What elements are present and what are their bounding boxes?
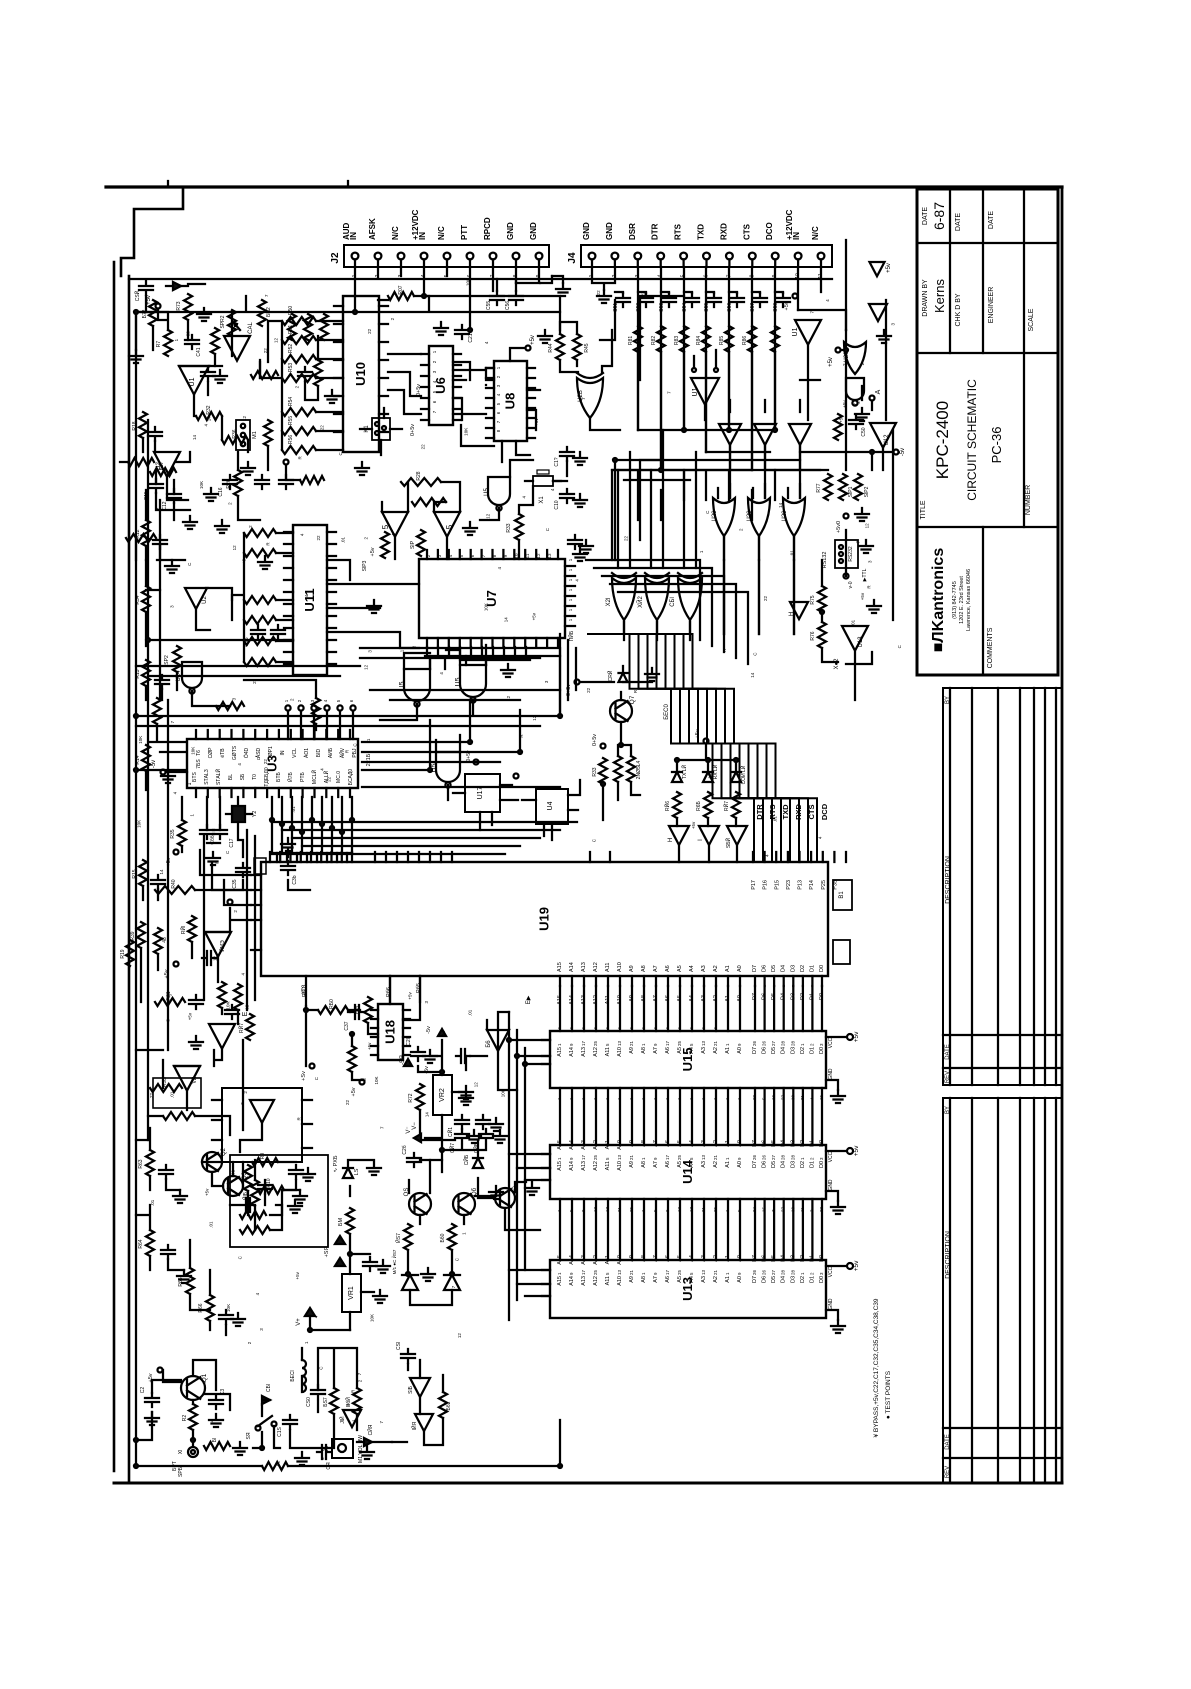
svg-text:C2l: C2l <box>406 1038 412 1046</box>
resistor R57d <box>323 1388 338 1414</box>
svg-text:A7: A7 <box>653 965 659 972</box>
svg-text:+5v: +5v <box>534 418 539 426</box>
svg-text:7БЅ: 7БЅ <box>196 759 202 769</box>
resistor R30 <box>318 999 348 1014</box>
svg-text:R66: R66 <box>198 1303 204 1312</box>
capacitor C16 <box>218 475 237 497</box>
memory chip select stubs <box>542 1040 550 1296</box>
revision table upper REV <box>945 1071 951 1083</box>
IC U8 <box>494 361 527 441</box>
svg-text:БTБ: БTБ <box>276 771 282 781</box>
svg-text:D0: D0 <box>819 1140 825 1147</box>
pullup resistors R81-R86 <box>628 326 779 352</box>
flip-flop U17 <box>465 774 500 812</box>
+5v Q7 <box>566 666 652 696</box>
svg-text:ЙМЭ: ЙМЭ <box>218 940 226 952</box>
relay M1 <box>236 420 258 450</box>
resistor R33c <box>506 514 523 540</box>
svg-text:C16: C16 <box>218 487 224 496</box>
memory power pins 2 <box>826 1260 860 1333</box>
long horizontals gate region <box>612 460 820 560</box>
ground C47 <box>467 1130 507 1143</box>
+5v circle mid strip <box>836 514 849 534</box>
svg-text:R82: R82 <box>651 336 657 345</box>
svg-text:LЅ: LЅ <box>354 1168 360 1175</box>
svg-text:D4: D4 <box>781 1047 787 1054</box>
svg-text:PБJ: PБJ <box>352 748 358 758</box>
connector J2 pin 8 GND <box>506 222 519 277</box>
svg-text:A12: A12 <box>593 1255 599 1265</box>
svg-text:МС.0: МС.0 <box>336 771 342 783</box>
wire -5v label <box>400 1055 412 1066</box>
wire xtal mesh <box>480 460 567 559</box>
svg-text:BY: BY <box>945 1106 951 1114</box>
svg-text:A13: A13 <box>581 1140 587 1150</box>
svg-text:C1Ѕ: C1Ѕ <box>277 1426 283 1436</box>
svg-text:DRAWN BY: DRAWN BY <box>922 279 929 317</box>
resistor R12 <box>135 520 150 546</box>
svg-text:R2: R2 <box>182 1415 188 1422</box>
IC U8 pins <box>486 368 535 438</box>
+5v circle top-left <box>146 295 161 308</box>
label V+ arrow <box>296 1308 350 1330</box>
U7 right pin labels <box>568 558 573 621</box>
svg-text:A15: A15 <box>557 1140 563 1150</box>
svg-text:A3: A3 <box>701 1161 707 1168</box>
wire Q1 mesh <box>136 1360 230 1446</box>
svg-text:14: 14 <box>210 1419 215 1425</box>
svg-text:22: 22 <box>752 1094 757 1100</box>
op-amp U1B cal <box>224 322 254 361</box>
J2 pin drops <box>355 267 552 330</box>
svg-text:U20: U20 <box>782 510 788 522</box>
svg-text:+5v: +5v <box>886 263 892 273</box>
svg-text:28: 28 <box>790 1040 795 1046</box>
connector J4 label <box>567 252 578 264</box>
svg-text:GND: GND <box>529 222 538 240</box>
svg-text:Q1: Q1 <box>201 1373 208 1382</box>
svg-text:R64: R64 <box>138 1239 144 1248</box>
flip-flop U4 <box>536 789 568 824</box>
svg-text:17: 17 <box>581 1040 586 1046</box>
svg-text:0+5v: 0+5v <box>416 384 422 396</box>
op-amp U1K <box>250 1100 274 1123</box>
svg-text:A6: A6 <box>665 965 671 972</box>
svg-text:12: 12 <box>536 553 541 559</box>
svg-text:R75: R75 <box>810 595 816 604</box>
tick marks top border <box>168 181 348 187</box>
svg-text:.01: .01 <box>851 619 856 626</box>
op-amp U2A <box>154 452 180 477</box>
resistor R21 <box>155 991 185 1006</box>
svg-text:R28: R28 <box>416 471 422 480</box>
svg-text:17: 17 <box>581 1154 586 1160</box>
svg-text:A0: A0 <box>737 965 743 972</box>
svg-text:A5: A5 <box>677 1047 683 1054</box>
svg-text:10K: 10K <box>199 481 204 489</box>
svg-text:A3: A3 <box>701 1140 707 1147</box>
svg-text:VCC: VCC <box>828 1266 834 1277</box>
svg-text:C3b: C3b <box>292 875 298 884</box>
svg-text:13: 13 <box>617 1269 622 1275</box>
inductor RFC1 <box>290 1360 306 1392</box>
svg-text:14: 14 <box>159 869 164 875</box>
svg-text:N/C: N/C <box>811 226 820 240</box>
transistor Q6 <box>453 1187 478 1215</box>
resistor R13 <box>135 660 150 686</box>
title block SCALE <box>1028 308 1035 331</box>
svg-text:22: 22 <box>263 348 268 354</box>
+5v Q1 <box>148 1368 163 1383</box>
svg-text:ЅlБ: ЅlБ <box>408 1385 414 1393</box>
svg-text:.01: .01 <box>291 806 296 813</box>
capacitor C26 <box>402 1145 421 1167</box>
op-amp U2C <box>185 588 208 609</box>
svg-text:U12: U12 <box>884 434 890 446</box>
IC U11 <box>293 525 327 675</box>
svg-text:A6: A6 <box>665 1047 671 1054</box>
svg-text:A4: A4 <box>689 1047 695 1054</box>
svg-text:RБ0: RБ0 <box>329 999 335 1009</box>
wire V- arrow <box>406 1110 455 1140</box>
svg-text:+5v: +5v <box>838 415 843 423</box>
title block DATE (eng) <box>988 211 995 229</box>
svg-text:10K: 10K <box>465 278 470 286</box>
ground U1E <box>877 330 891 343</box>
svg-text:21: 21 <box>617 1206 622 1212</box>
svg-text:10: 10 <box>790 1094 795 1100</box>
svg-text:D2: D2 <box>800 1276 806 1283</box>
svg-text:+5v: +5v <box>204 1188 209 1196</box>
U7 right pins <box>565 566 575 626</box>
wire left fill3 <box>190 1240 226 1335</box>
svg-text:KPC-2400: KPC-2400 <box>933 401 952 479</box>
svg-text:27: 27 <box>781 1206 786 1212</box>
svg-text:CБl: CБl <box>266 1384 272 1392</box>
diode D5 <box>402 1275 418 1290</box>
ground U5A <box>463 522 477 535</box>
resistor R46 <box>663 792 681 818</box>
IC U19 bottom pins <box>306 976 822 1006</box>
ground U2E <box>189 1036 203 1049</box>
svg-text:D3: D3 <box>790 1276 796 1283</box>
wire left verticals mid2 <box>243 830 255 1130</box>
svg-text:DATE: DATE <box>922 207 929 225</box>
svg-text:14: 14 <box>750 672 755 678</box>
svg-text:VR1: VR1 <box>348 1286 355 1300</box>
svg-text:SЯ: SЯ <box>246 1432 252 1439</box>
svg-text:A6: A6 <box>665 1276 671 1283</box>
svg-text:R14: R14 <box>135 755 141 764</box>
svg-text:A14: A14 <box>569 1047 575 1057</box>
resistor R53 <box>150 1076 182 1092</box>
+5v U18 area <box>301 1064 365 1097</box>
svg-text:SCALE: SCALE <box>1028 308 1035 331</box>
resistor R26 <box>226 470 242 496</box>
svg-text:v-0: v-0 <box>848 581 854 588</box>
svg-text:D1: D1 <box>809 1140 815 1147</box>
crystal B1 box <box>833 880 852 910</box>
IC U18 <box>378 1004 403 1060</box>
svg-text:C15: C15 <box>244 637 250 646</box>
transistor Q4 <box>495 1186 520 1208</box>
svg-text:D0: D0 <box>819 965 825 972</box>
resistor R73 <box>176 294 192 320</box>
svg-text:A2: A2 <box>713 965 719 972</box>
svg-text:21: 21 <box>629 1040 634 1046</box>
IC U7 <box>419 559 565 638</box>
ground U7 right <box>573 548 587 561</box>
svg-text:X1: X1 <box>539 496 545 504</box>
resistor R15 <box>132 860 147 886</box>
svg-text:éTB: éTB <box>220 748 226 758</box>
resistors R49 R45b <box>614 756 642 782</box>
svg-text:12: 12 <box>274 338 279 344</box>
svg-text:REV: REV <box>945 1466 951 1478</box>
capacitor C11 <box>144 479 163 500</box>
svg-text:R83: R83 <box>674 336 680 345</box>
svg-text:DATE: DATE <box>988 211 995 229</box>
op-amp U5B <box>381 512 408 537</box>
inverter J <box>724 826 747 848</box>
svg-text:COMMENTS: COMMENTS <box>987 627 994 668</box>
wire U8 top +5 <box>510 335 536 361</box>
svg-text:D6: D6 <box>762 1047 768 1054</box>
svg-text:22: 22 <box>149 1092 154 1098</box>
svg-text:JlЙ: JlЙ <box>338 1416 346 1424</box>
IC U6 <box>429 346 453 425</box>
svg-text:R56: R56 <box>288 435 294 444</box>
border frame left outer <box>113 262 116 1471</box>
svg-text:A10: A10 <box>617 1276 623 1286</box>
svg-text:GND: GND <box>605 222 614 240</box>
svg-text:ENGINEER: ENGINEER <box>988 287 995 324</box>
svg-text:U5: U5 <box>455 677 462 686</box>
capacitor C9 <box>289 1165 315 1181</box>
svg-text:R9: R9 <box>260 1153 266 1160</box>
connector J4 pin 6 TXD <box>697 224 710 278</box>
svg-text:27: 27 <box>771 1269 776 1275</box>
svg-text:10: 10 <box>514 553 519 559</box>
svg-text:R84: R84 <box>696 336 702 345</box>
svg-text:+5v: +5v <box>408 992 413 1000</box>
wire buffer row pins <box>730 400 800 470</box>
svg-text:26: 26 <box>752 1154 757 1160</box>
svg-text:22: 22 <box>596 290 601 296</box>
resistor R27 <box>150 461 176 476</box>
svg-text:A9: A9 <box>629 1047 635 1054</box>
svg-text:11: 11 <box>525 553 530 558</box>
svg-text:R15: R15 <box>132 869 138 878</box>
svg-text:E: E <box>242 1011 249 1016</box>
svg-text:A3: A3 <box>701 1047 707 1054</box>
svg-text:A3: A3 <box>701 1255 707 1262</box>
svg-text:CHK D BY: CHK D BY <box>955 293 962 326</box>
connector J2 box <box>344 245 549 267</box>
capacitor C41 <box>185 335 202 357</box>
resistor R75 <box>810 586 826 612</box>
svg-text:GND: GND <box>828 1179 834 1191</box>
svg-text:RXD: RXD <box>719 223 728 240</box>
+5v U3 <box>166 850 179 867</box>
nand U5F <box>431 752 460 788</box>
inverter H gate <box>789 602 808 619</box>
svg-text:C56: C56 <box>505 301 511 310</box>
IC U18 pins <box>371 1010 410 1055</box>
svg-text:A4: A4 <box>689 1255 695 1262</box>
IC U19 left pins <box>251 875 261 950</box>
ground left1 <box>165 560 179 573</box>
svg-text:U13: U13 <box>858 636 864 648</box>
svg-text:Бl: Бl <box>212 1438 218 1442</box>
svg-text:Q2: Q2 <box>221 1147 227 1156</box>
svg-text:D6: D6 <box>762 1276 768 1283</box>
capacitor C15b <box>277 1415 297 1437</box>
svg-text:5: 5 <box>381 524 390 529</box>
svg-text:A4: A4 <box>689 1276 695 1283</box>
svg-text:.01: .01 <box>276 1460 281 1467</box>
diode CR1 <box>262 1384 272 1404</box>
svg-text:A11: A11 <box>605 1276 611 1285</box>
label 7&#1041;&#1057; U3 <box>196 759 202 769</box>
op-amp U12B <box>870 423 896 448</box>
LED CONLED <box>731 765 747 784</box>
svg-text:P25: P25 <box>821 880 827 890</box>
capacitor C35 C36 <box>232 858 298 889</box>
svg-text:TХ LЙ: TХ LЙ <box>680 765 688 780</box>
svg-text:A8: A8 <box>641 1140 647 1147</box>
svg-text:A12: A12 <box>593 1161 599 1171</box>
svg-text:Бб2: Бб2 <box>446 1401 452 1410</box>
svg-text:R50: R50 <box>288 306 294 315</box>
wire RTS chain <box>600 296 684 380</box>
svg-text:A8: A8 <box>641 1047 647 1054</box>
svg-text:IN: IN <box>418 232 427 240</box>
svg-text:SIP: SIP <box>410 540 416 549</box>
svg-text:A15: A15 <box>557 1276 563 1286</box>
inverter I <box>698 826 719 845</box>
resistors R77 SIP1 SIP2 <box>816 474 870 500</box>
gate U24 <box>176 662 202 694</box>
IC U10 <box>343 296 379 452</box>
revision table upper DESCRIPTION <box>945 856 952 904</box>
J4 pin drops <box>592 267 821 470</box>
comparator U13B <box>842 626 868 651</box>
resistors R44 R45 <box>548 334 590 360</box>
svg-text:R39: R39 <box>130 931 136 940</box>
svg-text:U1: U1 <box>792 327 799 336</box>
svg-text:+5v: +5v <box>853 1260 860 1271</box>
svg-text:CЙ1: CЙ1 <box>446 1127 454 1137</box>
U3 inner row <box>192 767 354 786</box>
IC U7 pins <box>427 550 558 647</box>
wire right strip verticals <box>822 240 872 664</box>
svg-text:C21: C21 <box>468 333 474 342</box>
svg-text:REV: REV <box>945 1071 951 1083</box>
svg-text:(913) 842-7745: (913) 842-7745 <box>952 581 958 619</box>
watchdog box M1 <box>230 1155 328 1247</box>
capacitor C13 <box>255 475 293 489</box>
capacitor C43 <box>189 995 203 1009</box>
wire left fillers <box>143 490 162 900</box>
svg-text:A11: A11 <box>605 1047 611 1056</box>
wire J4 signal drops to gates <box>638 352 775 470</box>
svg-text:CØP1: CØP1 <box>268 746 274 760</box>
revision table lower DATE <box>945 1434 951 1450</box>
wire R44 R45 to gate <box>560 322 612 372</box>
svg-text:17: 17 <box>581 1269 586 1275</box>
module pins <box>212 1100 312 1148</box>
svg-text:D1: D1 <box>809 965 815 972</box>
connector J2 pin 4 +12VDC IN <box>411 209 427 277</box>
svg-text:P15: P15 <box>774 880 780 890</box>
resistor R29 <box>153 698 161 724</box>
svg-text:ХЙ2: ХЙ2 <box>636 596 644 608</box>
svg-text:R6Б: R6Б <box>696 800 702 810</box>
svg-text:RS232: RS232 <box>848 546 854 562</box>
connector J4 pin 2 GND <box>605 222 618 277</box>
capacitor C21b <box>406 1038 425 1061</box>
resistor R07 <box>388 285 414 300</box>
svg-text:10K: 10K <box>463 428 468 436</box>
svg-text:A4: A4 <box>689 1140 695 1147</box>
svg-text:D2: D2 <box>800 965 806 972</box>
svg-text:A8: A8 <box>641 1276 647 1283</box>
svg-text:A7: A7 <box>653 1161 659 1168</box>
svg-text:H: H <box>668 838 674 842</box>
wire U20 trio pins <box>718 484 800 560</box>
svg-text:ЙЅ7: ЙЅ7 <box>394 1233 402 1243</box>
svg-text:D7: D7 <box>752 1140 758 1147</box>
svg-text:5: 5 <box>445 524 454 529</box>
wire LED chain <box>677 745 737 862</box>
svg-text:A9: A9 <box>629 1161 635 1168</box>
svg-text:22: 22 <box>263 759 268 765</box>
svg-text:21: 21 <box>629 1154 634 1160</box>
svg-text:D2: D2 <box>800 1161 806 1168</box>
ground U13B <box>867 600 881 613</box>
svg-text:C10: C10 <box>554 500 560 509</box>
resistor R28 <box>401 471 441 486</box>
connector J2 pin 5 N/C <box>437 226 450 277</box>
diode CR7 <box>166 282 188 290</box>
svg-text:AИБ: AИБ <box>328 747 334 758</box>
wire bottom run <box>136 1420 560 1466</box>
svg-text:¥ BYPASS,+5v,C22,C17,C32,C35,C: ¥ BYPASS,+5v,C22,C17,C32,C35,C34,C38,C39 <box>873 1298 880 1437</box>
capacitor C13b <box>155 675 169 689</box>
svg-text:R19: R19 <box>120 949 126 958</box>
svg-text:DESCRIPTION: DESCRIPTION <box>945 856 952 904</box>
svg-text:+5v: +5v <box>351 1087 357 1096</box>
label U3 pin1 <box>187 782 193 785</box>
connector RS232-TTL <box>835 540 868 581</box>
svg-text:A2: A2 <box>713 1161 719 1168</box>
svg-text:DATE: DATE <box>955 213 962 231</box>
svg-text:14: 14 <box>503 617 508 623</box>
svg-text:CØP: CØP <box>208 747 214 759</box>
wire audio-in run <box>136 312 355 1440</box>
op-amp U1J <box>691 368 719 405</box>
title block DRAWN BY Kerns <box>922 279 947 317</box>
svg-text:R86: R86 <box>742 336 748 345</box>
svg-text:A12: A12 <box>593 1276 599 1286</box>
svg-text:C56: C56 <box>727 303 733 312</box>
svg-text:U19: U19 <box>537 907 552 931</box>
svg-text:25: 25 <box>677 1154 682 1160</box>
svg-text:25: 25 <box>593 1040 598 1046</box>
svg-text:A7: A7 <box>653 1140 659 1147</box>
svg-text:D7: D7 <box>752 965 758 972</box>
